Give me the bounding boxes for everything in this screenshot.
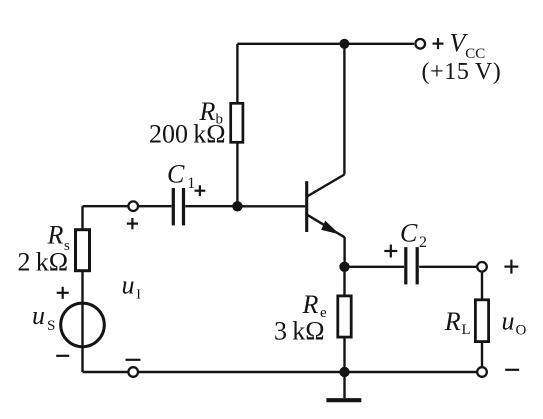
svg-text:I: I (136, 288, 141, 303)
svg-text:R: R (444, 307, 461, 336)
svg-text:S: S (47, 318, 55, 334)
svg-text:C: C (400, 219, 418, 248)
svg-text:2 kΩ: 2 kΩ (18, 248, 69, 277)
svg-text:O: O (516, 323, 527, 339)
svg-text:3 kΩ: 3 kΩ (274, 317, 325, 346)
svg-text:C: C (167, 160, 185, 189)
svg-text:1: 1 (187, 175, 195, 192)
svg-text:R: R (302, 290, 319, 319)
svg-text:u: u (122, 271, 135, 300)
svg-text:200 kΩ: 200 kΩ (149, 120, 226, 149)
svg-text:(+15 V): (+15 V) (422, 59, 502, 85)
svg-text:L: L (462, 322, 471, 338)
svg-text:2: 2 (419, 234, 427, 251)
svg-text:u: u (32, 301, 45, 330)
svg-text:R: R (47, 221, 64, 250)
svg-text:u: u (502, 307, 515, 336)
